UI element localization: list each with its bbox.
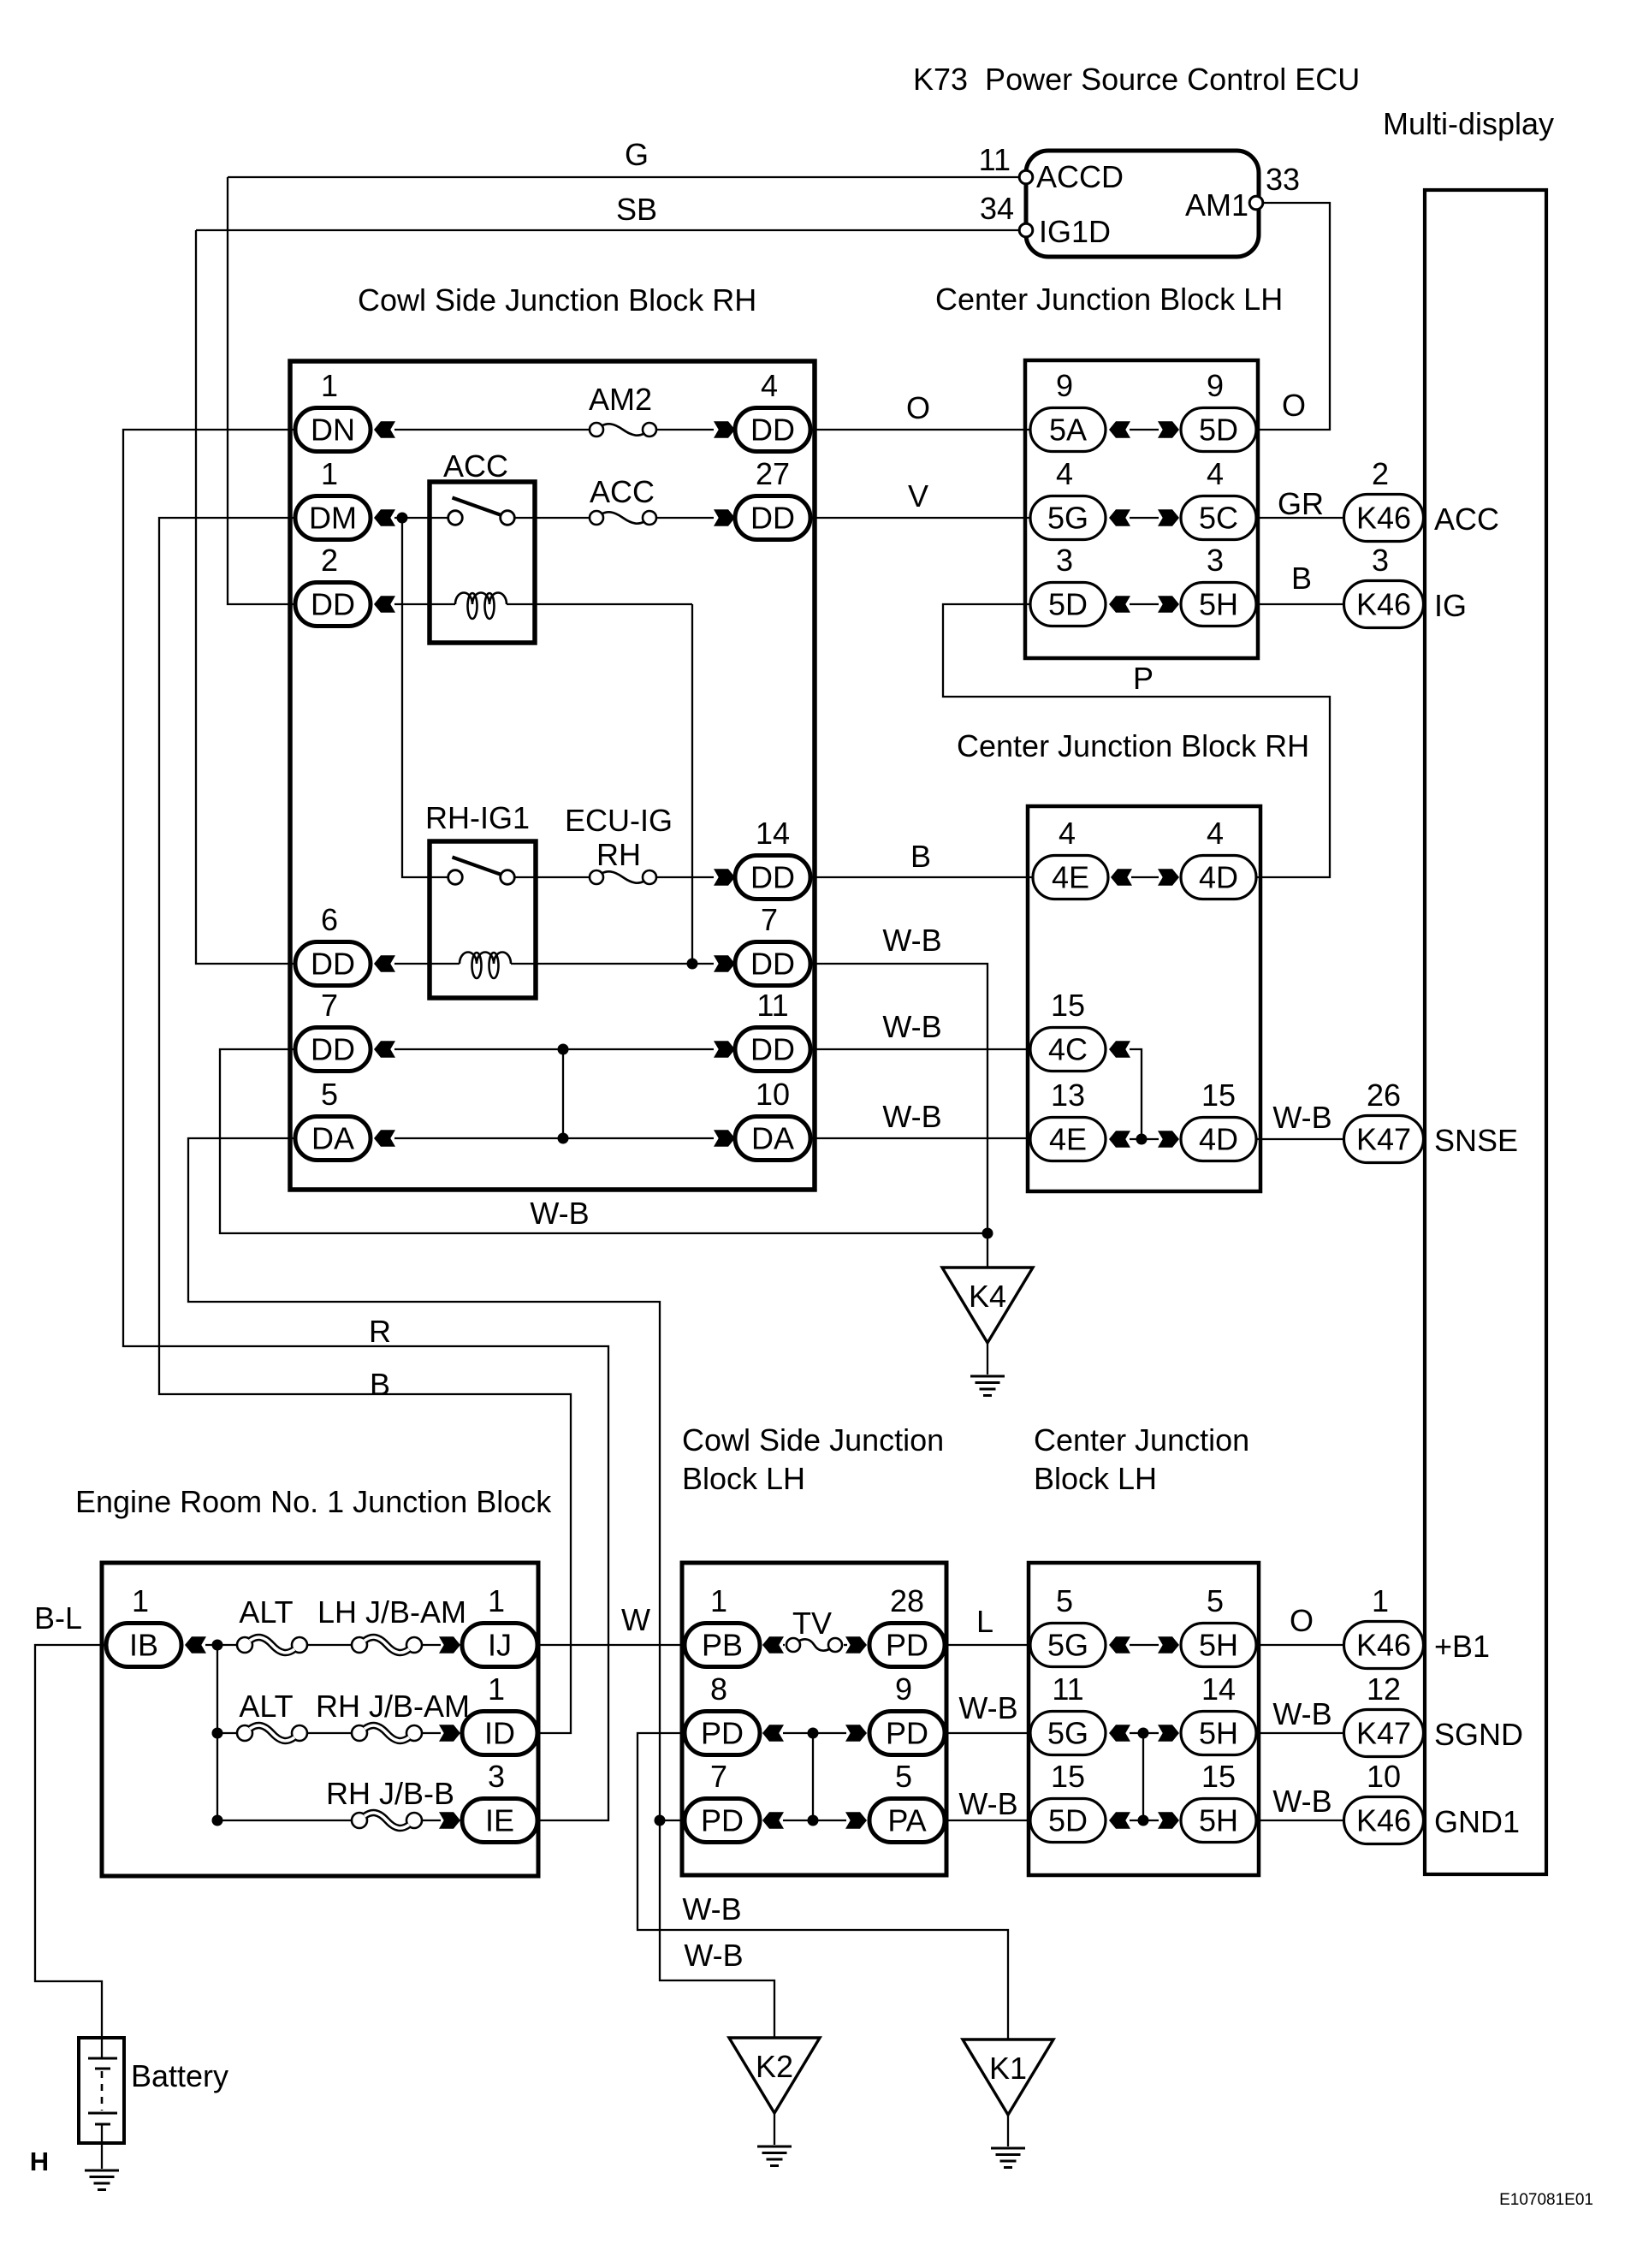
- svg-text:9: 9: [1056, 368, 1073, 403]
- svg-text:DD: DD: [311, 947, 355, 982]
- svg-text:W: W: [621, 1602, 650, 1637]
- svg-text:8: 8: [710, 1671, 727, 1707]
- svg-text:34: 34: [980, 191, 1014, 226]
- svg-text:1: 1: [132, 1583, 149, 1618]
- svg-text:4C: 4C: [1048, 1032, 1088, 1067]
- svg-text:4: 4: [1207, 456, 1224, 491]
- svg-text:IB: IB: [129, 1628, 158, 1663]
- svg-text:Center Junction Block RH: Center Junction Block RH: [957, 728, 1309, 763]
- svg-text:ALT: ALT: [239, 1594, 293, 1630]
- svg-text:5A: 5A: [1049, 413, 1087, 448]
- svg-text:LH J/B-AM: LH J/B-AM: [317, 1594, 466, 1630]
- svg-text:IJ: IJ: [488, 1628, 512, 1663]
- svg-text:DN: DN: [311, 413, 355, 448]
- svg-text:26: 26: [1367, 1078, 1401, 1113]
- svg-text:Cowl Side Junction Block RH: Cowl Side Junction Block RH: [358, 282, 756, 318]
- svg-text:RH J/B-B: RH J/B-B: [326, 1776, 454, 1811]
- svg-text:2: 2: [1372, 456, 1389, 491]
- svg-text:3: 3: [488, 1759, 505, 1794]
- svg-text:ACC: ACC: [590, 474, 655, 509]
- svg-text:5D: 5D: [1048, 587, 1088, 622]
- svg-text:K47: K47: [1356, 1716, 1411, 1751]
- svg-text:Block LH: Block LH: [1034, 1461, 1157, 1496]
- svg-text:SGND: SGND: [1434, 1717, 1523, 1752]
- svg-text:13: 13: [1051, 1078, 1085, 1113]
- svg-text:ECU-IG: ECU-IG: [565, 803, 673, 838]
- svg-text:27: 27: [756, 456, 790, 491]
- svg-text:RH J/B-AM: RH J/B-AM: [316, 1689, 470, 1724]
- svg-text:K46: K46: [1356, 501, 1411, 536]
- svg-text:DA: DA: [311, 1121, 354, 1156]
- svg-text:ACC: ACC: [443, 448, 508, 484]
- svg-text:Center Junction: Center Junction: [1034, 1422, 1249, 1458]
- svg-text:GND1: GND1: [1434, 1804, 1520, 1839]
- svg-text:R: R: [369, 1314, 391, 1349]
- svg-text:11: 11: [1052, 1671, 1083, 1707]
- svg-text:1: 1: [488, 1671, 505, 1707]
- svg-text:1: 1: [1372, 1583, 1389, 1618]
- svg-text:DD: DD: [311, 1032, 355, 1067]
- svg-text:O: O: [906, 390, 930, 425]
- svg-text:4E: 4E: [1049, 1122, 1087, 1157]
- svg-text:6: 6: [321, 902, 338, 937]
- svg-text:K1: K1: [989, 2051, 1027, 2086]
- svg-text:PA: PA: [887, 1803, 926, 1838]
- svg-text:5: 5: [1207, 1583, 1224, 1618]
- svg-text:E107081E01: E107081E01: [1499, 2191, 1593, 2209]
- svg-text:RH: RH: [596, 837, 641, 872]
- svg-text:W-B: W-B: [530, 1196, 589, 1231]
- svg-text:PD: PD: [701, 1803, 744, 1838]
- svg-text:4D: 4D: [1199, 860, 1238, 895]
- svg-text:ALT: ALT: [239, 1689, 293, 1724]
- svg-text:IG: IG: [1434, 588, 1467, 623]
- svg-text:DM: DM: [309, 501, 357, 536]
- svg-text:9: 9: [895, 1671, 912, 1707]
- svg-text:Engine Room No. 1 Junction Blo: Engine Room No. 1 Junction Block: [75, 1484, 552, 1519]
- svg-text:DD: DD: [311, 587, 355, 622]
- svg-text:5G: 5G: [1047, 1716, 1088, 1751]
- svg-text:W-B: W-B: [958, 1786, 1017, 1821]
- svg-text:K4: K4: [969, 1279, 1006, 1314]
- svg-text:11: 11: [756, 988, 788, 1023]
- svg-text:Battery: Battery: [131, 2058, 228, 2093]
- svg-text:Center Junction Block LH: Center Junction Block LH: [935, 282, 1283, 317]
- svg-text:10: 10: [1367, 1759, 1401, 1794]
- svg-text:TV: TV: [792, 1606, 832, 1641]
- svg-text:5H: 5H: [1199, 1803, 1238, 1838]
- svg-text:DA: DA: [751, 1121, 794, 1156]
- svg-text:PD: PD: [886, 1628, 928, 1663]
- svg-text:B: B: [370, 1367, 390, 1402]
- svg-text:5H: 5H: [1199, 1716, 1238, 1751]
- svg-text:RH-IG1: RH-IG1: [425, 800, 530, 835]
- svg-text:SB: SB: [616, 192, 657, 227]
- svg-text:B: B: [1291, 561, 1312, 596]
- svg-text:15: 15: [1201, 1078, 1236, 1113]
- svg-text:DD: DD: [750, 1032, 795, 1067]
- svg-text:PD: PD: [701, 1716, 744, 1751]
- svg-text:DD: DD: [750, 860, 795, 895]
- svg-text:W-B: W-B: [1272, 1784, 1331, 1819]
- svg-text:W-B: W-B: [882, 1099, 941, 1134]
- svg-text:K46: K46: [1356, 1803, 1411, 1838]
- svg-text:G: G: [625, 137, 649, 172]
- svg-text:14: 14: [1201, 1671, 1236, 1707]
- svg-text:V: V: [908, 478, 928, 514]
- svg-text:IG1D: IG1D: [1039, 214, 1111, 249]
- svg-text:3: 3: [1207, 543, 1224, 578]
- svg-text:2: 2: [321, 543, 338, 578]
- svg-text:B: B: [910, 839, 931, 874]
- svg-text:5G: 5G: [1047, 1628, 1088, 1663]
- svg-text:K46: K46: [1356, 1628, 1411, 1663]
- svg-text:3: 3: [1056, 543, 1073, 578]
- svg-text:1: 1: [710, 1583, 727, 1618]
- svg-text:5: 5: [321, 1077, 338, 1112]
- svg-text:5H: 5H: [1199, 1628, 1238, 1663]
- svg-text:PD: PD: [886, 1716, 928, 1751]
- svg-text:15: 15: [1201, 1759, 1236, 1794]
- svg-text:W-B: W-B: [682, 1891, 741, 1927]
- svg-text:W-B: W-B: [882, 1009, 941, 1044]
- svg-text:5D: 5D: [1048, 1803, 1088, 1838]
- svg-text:W-B: W-B: [958, 1690, 1017, 1725]
- svg-text:L: L: [976, 1604, 993, 1639]
- svg-text:O: O: [1290, 1603, 1314, 1638]
- svg-text:DD: DD: [750, 947, 795, 982]
- svg-text:W-B: W-B: [1272, 1696, 1331, 1731]
- svg-text:12: 12: [1367, 1671, 1401, 1707]
- svg-text:P: P: [1133, 661, 1154, 696]
- svg-text:K2: K2: [756, 2049, 793, 2084]
- svg-text:11: 11: [979, 142, 1011, 177]
- svg-text:AM2: AM2: [589, 382, 652, 417]
- svg-text:15: 15: [1051, 988, 1085, 1023]
- svg-text:K46: K46: [1356, 587, 1411, 622]
- svg-text:15: 15: [1051, 1759, 1085, 1794]
- svg-text:7: 7: [761, 902, 778, 937]
- svg-text:W-B: W-B: [684, 1938, 743, 1973]
- svg-text:Cowl Side Junction: Cowl Side Junction: [682, 1422, 944, 1458]
- svg-text:ACC: ACC: [1434, 502, 1499, 537]
- svg-text:5G: 5G: [1047, 501, 1088, 536]
- svg-text:9: 9: [1207, 368, 1224, 403]
- svg-text:10: 10: [756, 1077, 790, 1112]
- svg-text:4D: 4D: [1199, 1122, 1238, 1157]
- svg-text:7: 7: [710, 1759, 727, 1794]
- svg-text:1: 1: [321, 456, 338, 491]
- svg-text:28: 28: [890, 1583, 924, 1618]
- svg-text:4E: 4E: [1052, 860, 1089, 895]
- svg-text:5: 5: [895, 1759, 912, 1794]
- svg-text:7: 7: [321, 988, 338, 1023]
- svg-text:W-B: W-B: [882, 923, 941, 958]
- svg-text:AM1: AM1: [1185, 187, 1248, 223]
- svg-text:3: 3: [1372, 543, 1389, 578]
- svg-text:SNSE: SNSE: [1434, 1123, 1518, 1158]
- svg-text:4: 4: [761, 368, 778, 403]
- svg-text:1: 1: [321, 368, 338, 403]
- svg-text:Multi-display: Multi-display: [1383, 106, 1554, 141]
- svg-text:5C: 5C: [1199, 501, 1238, 536]
- svg-text:ID: ID: [484, 1716, 515, 1751]
- svg-text:4: 4: [1056, 456, 1073, 491]
- svg-text:14: 14: [756, 816, 790, 851]
- svg-text:W-B: W-B: [1272, 1100, 1331, 1135]
- svg-text:K73 Power Source Control ECU: K73 Power Source Control ECU: [913, 62, 1360, 97]
- svg-text:33: 33: [1266, 162, 1300, 197]
- svg-text:O: O: [1282, 388, 1306, 423]
- svg-text:GR: GR: [1278, 486, 1324, 521]
- svg-text:Block LH: Block LH: [682, 1461, 805, 1496]
- svg-text:ACCD: ACCD: [1036, 159, 1124, 194]
- svg-text:B-L: B-L: [34, 1600, 82, 1636]
- svg-text:5D: 5D: [1199, 413, 1238, 448]
- svg-text:PB: PB: [702, 1628, 743, 1663]
- svg-text:5: 5: [1056, 1583, 1073, 1618]
- svg-text:1: 1: [488, 1583, 505, 1618]
- svg-text:H: H: [30, 2146, 49, 2176]
- svg-text:5H: 5H: [1199, 587, 1238, 622]
- svg-text:K47: K47: [1356, 1122, 1411, 1157]
- svg-text:DD: DD: [750, 501, 795, 536]
- svg-text:4: 4: [1059, 816, 1076, 851]
- svg-text:4: 4: [1207, 816, 1224, 851]
- svg-text:+B1: +B1: [1434, 1629, 1490, 1664]
- svg-text:DD: DD: [750, 413, 795, 448]
- svg-text:IE: IE: [485, 1803, 514, 1838]
